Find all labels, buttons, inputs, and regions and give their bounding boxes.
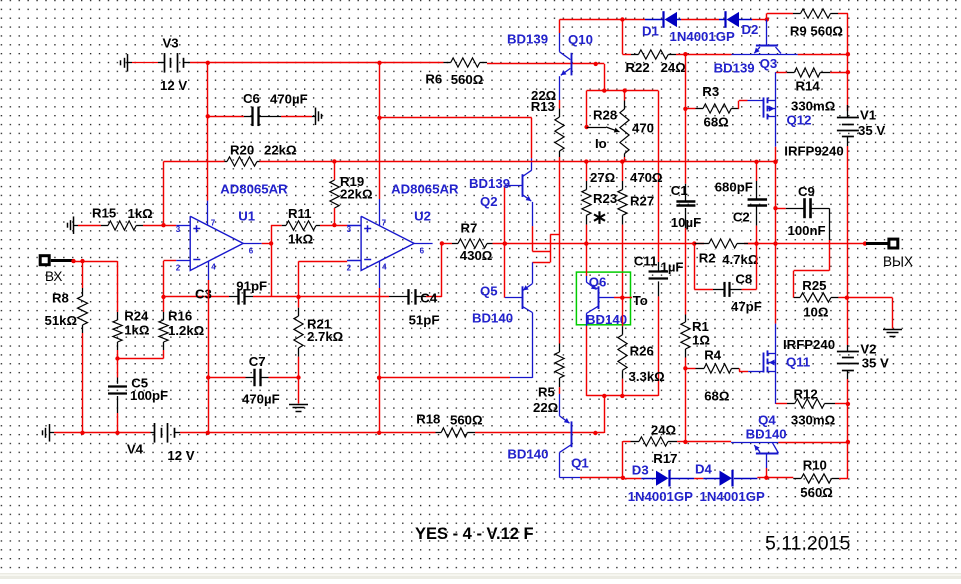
svg-text:1kΩ: 1kΩ <box>124 323 150 338</box>
svg-text:R5: R5 <box>538 385 555 400</box>
svg-text:24Ω: 24Ω <box>651 423 677 438</box>
svg-text:22kΩ: 22kΩ <box>264 143 297 158</box>
svg-text:22Ω: 22Ω <box>533 400 559 415</box>
svg-text:R16: R16 <box>168 309 192 324</box>
svg-text:7: 7 <box>211 219 216 228</box>
svg-text:1.2kΩ: 1.2kΩ <box>168 323 205 338</box>
svg-text:47pF: 47pF <box>731 299 762 314</box>
svg-text:BD140: BD140 <box>586 312 627 327</box>
svg-text:D1: D1 <box>642 24 659 39</box>
svg-text:100pF: 100pF <box>130 388 168 403</box>
svg-text:Q3: Q3 <box>760 56 778 71</box>
svg-text:100nF: 100nF <box>788 223 826 238</box>
svg-text:R13: R13 <box>531 99 555 114</box>
svg-text:3: 3 <box>176 225 181 234</box>
svg-text:1N4001GP: 1N4001GP <box>628 489 693 504</box>
svg-text:R3: R3 <box>702 84 719 99</box>
svg-text:Q6: Q6 <box>589 275 607 290</box>
svg-text:AD8065AR: AD8065AR <box>391 182 459 197</box>
svg-text:Q10: Q10 <box>568 32 593 47</box>
svg-text:1kΩ: 1kΩ <box>128 206 154 221</box>
svg-text:5.11.2015: 5.11.2015 <box>765 533 850 555</box>
svg-text:BD139: BD139 <box>507 32 548 47</box>
svg-text:C4: C4 <box>420 291 438 306</box>
svg-text:4.7kΩ: 4.7kΩ <box>722 252 759 267</box>
svg-text:R24: R24 <box>124 309 149 324</box>
svg-text:6: 6 <box>249 247 254 256</box>
svg-text:C2: C2 <box>733 210 750 225</box>
svg-text:YES - 4 - V.12 F: YES - 4 - V.12 F <box>415 525 534 543</box>
svg-text:1N4001GP: 1N4001GP <box>700 489 765 504</box>
svg-text:C7: C7 <box>249 354 266 369</box>
svg-text:3.3kΩ: 3.3kΩ <box>629 369 666 384</box>
svg-text:R15: R15 <box>92 206 116 221</box>
svg-text:R25: R25 <box>802 278 826 293</box>
svg-text:R4: R4 <box>704 348 722 363</box>
svg-text:680pF: 680pF <box>715 180 753 195</box>
svg-text:C3: C3 <box>195 287 212 302</box>
svg-text:R18: R18 <box>416 412 440 427</box>
svg-text:470Ω: 470Ω <box>630 170 663 185</box>
svg-text:R11: R11 <box>288 206 311 221</box>
svg-text:BD140: BD140 <box>746 427 787 442</box>
svg-text:R20: R20 <box>230 143 254 158</box>
svg-text:Q4: Q4 <box>758 413 776 428</box>
svg-text:R8: R8 <box>52 291 69 306</box>
svg-text:330mΩ: 330mΩ <box>791 413 836 428</box>
svg-text:IRFP9240: IRFP9240 <box>784 144 843 159</box>
svg-text:51kΩ: 51kΩ <box>45 313 78 328</box>
svg-text:R17: R17 <box>653 451 677 466</box>
svg-text:Q11: Q11 <box>786 355 810 370</box>
svg-text:U2: U2 <box>414 209 431 224</box>
svg-text:AD8065AR: AD8065AR <box>220 182 288 197</box>
svg-text:D3: D3 <box>632 462 649 477</box>
svg-text:12 V: 12 V <box>160 78 187 93</box>
svg-text:BD139: BD139 <box>469 176 510 191</box>
svg-text:R26: R26 <box>630 344 654 359</box>
svg-text:10µF: 10µF <box>671 215 701 230</box>
svg-text:Io: Io <box>595 136 607 151</box>
svg-text:V3: V3 <box>163 36 179 51</box>
svg-text:ВЫХ: ВЫХ <box>883 254 913 269</box>
svg-text:330mΩ: 330mΩ <box>791 99 836 114</box>
svg-text:R10: R10 <box>803 458 827 473</box>
svg-text:430Ω: 430Ω <box>460 248 493 263</box>
svg-text:12 V: 12 V <box>167 448 194 463</box>
svg-text:D4: D4 <box>695 461 713 476</box>
svg-text:1µF: 1µF <box>661 260 684 275</box>
svg-text:1Ω: 1Ω <box>692 333 710 348</box>
svg-text:560Ω: 560Ω <box>800 485 833 500</box>
svg-text:27Ω: 27Ω <box>590 170 616 185</box>
svg-text:BD139: BD139 <box>714 61 755 76</box>
svg-text:C9: C9 <box>798 184 815 199</box>
svg-text:35 V: 35 V <box>862 356 889 371</box>
svg-text:C1: C1 <box>671 183 688 198</box>
svg-text:V1: V1 <box>860 108 876 123</box>
svg-text:Q12: Q12 <box>787 113 812 128</box>
svg-text:Q5: Q5 <box>480 284 498 299</box>
svg-text:4: 4 <box>382 263 387 272</box>
svg-text:Q1: Q1 <box>571 456 589 471</box>
svg-text:6: 6 <box>420 247 425 256</box>
svg-text:R27: R27 <box>630 194 654 209</box>
svg-text:2: 2 <box>347 264 352 273</box>
svg-text:68Ω: 68Ω <box>704 115 730 130</box>
svg-text:470µF: 470µF <box>242 392 280 407</box>
svg-text:ВХ: ВХ <box>45 269 62 284</box>
svg-text:C8: C8 <box>735 272 752 287</box>
svg-text:R2: R2 <box>699 251 716 266</box>
svg-text:24Ω: 24Ω <box>661 60 687 75</box>
svg-text:560Ω: 560Ω <box>451 72 484 87</box>
svg-text:3: 3 <box>347 225 352 234</box>
svg-text:BD140: BD140 <box>472 311 513 326</box>
svg-text:4: 4 <box>211 263 216 272</box>
svg-text:1kΩ: 1kΩ <box>288 232 314 247</box>
svg-text:1N4001GP: 1N4001GP <box>670 29 735 44</box>
svg-text:560Ω: 560Ω <box>450 413 483 428</box>
svg-text:51pF: 51pF <box>409 313 440 328</box>
svg-text:Q2: Q2 <box>480 194 498 209</box>
svg-text:2: 2 <box>176 264 181 273</box>
svg-text:R28: R28 <box>593 108 617 123</box>
svg-text:7: 7 <box>382 219 387 228</box>
svg-text:R6: R6 <box>425 72 442 87</box>
svg-text:V2: V2 <box>860 342 876 357</box>
svg-text:U1: U1 <box>238 209 255 224</box>
svg-text:10Ω: 10Ω <box>803 305 829 320</box>
svg-text:470: 470 <box>632 121 654 136</box>
svg-text:35 V: 35 V <box>858 123 885 138</box>
svg-text:22kΩ: 22kΩ <box>340 187 373 202</box>
svg-text:R7: R7 <box>461 221 478 236</box>
svg-text:R12: R12 <box>794 387 818 402</box>
svg-text:C6: C6 <box>243 91 260 106</box>
svg-text:To: To <box>633 293 648 308</box>
svg-text:2.7kΩ: 2.7kΩ <box>307 329 344 344</box>
svg-text:68Ω: 68Ω <box>704 389 730 404</box>
svg-text:V4: V4 <box>127 442 144 457</box>
svg-text:91pF: 91pF <box>236 278 267 293</box>
svg-text:R9 560Ω: R9 560Ω <box>790 24 844 39</box>
svg-text:470µF: 470µF <box>270 92 308 107</box>
svg-text:IRFP240: IRFP240 <box>783 337 835 352</box>
svg-text:C11: C11 <box>634 254 657 269</box>
svg-text:D2: D2 <box>742 22 759 37</box>
svg-text:R22: R22 <box>626 60 650 75</box>
svg-text:R14: R14 <box>796 79 821 94</box>
svg-text:BD140: BD140 <box>507 447 548 462</box>
svg-text:R23: R23 <box>593 191 617 206</box>
